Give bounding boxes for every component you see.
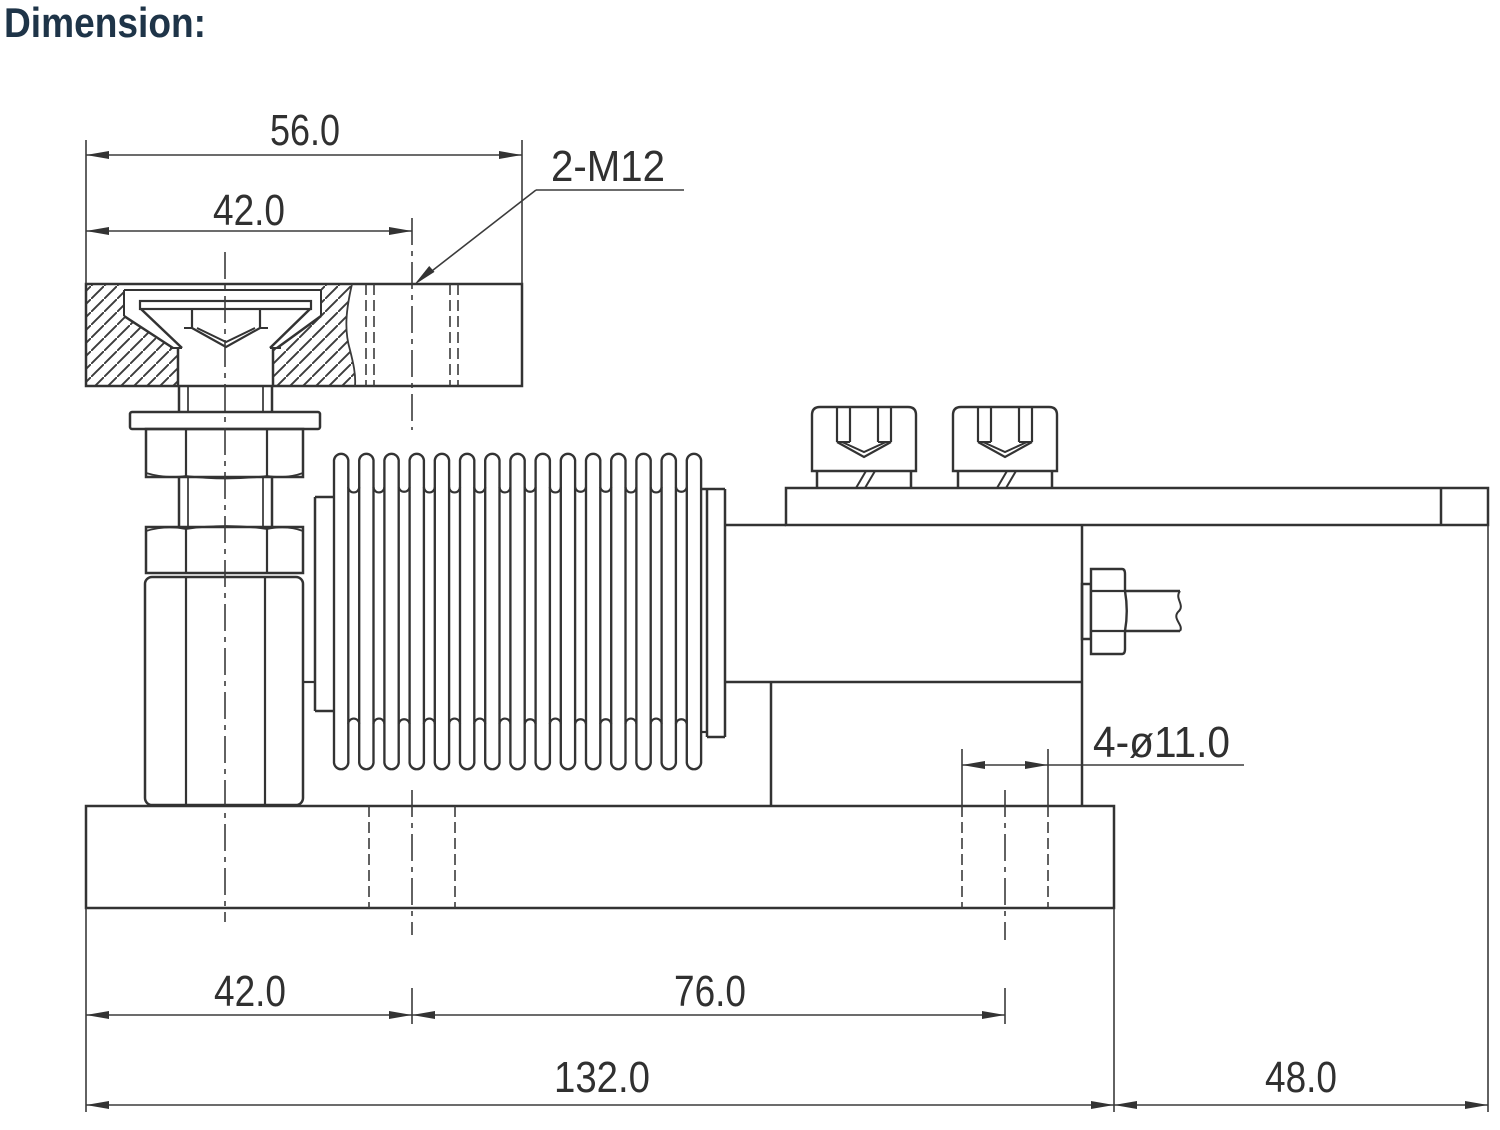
svg-text:48.0: 48.0 [1265, 1053, 1337, 1102]
svg-text:Dimension:: Dimension: [4, 0, 206, 46]
svg-text:2-M12: 2-M12 [551, 142, 665, 191]
svg-text:76.0: 76.0 [674, 967, 746, 1016]
svg-text:132.0: 132.0 [554, 1053, 650, 1102]
svg-text:56.0: 56.0 [270, 106, 340, 155]
svg-text:42.0: 42.0 [214, 967, 286, 1016]
svg-text:42.0: 42.0 [213, 186, 285, 235]
svg-text:4-ø11.0: 4-ø11.0 [1093, 718, 1230, 767]
